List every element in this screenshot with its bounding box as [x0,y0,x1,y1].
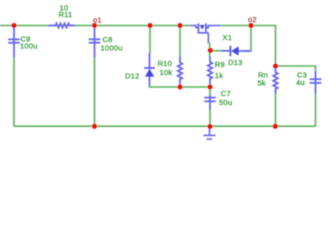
resistor R10 [178,57,183,86]
wire Rn bottom [275,94,277,127]
svg-text:1000u: 1000u [101,43,123,52]
wire D13 to o2 [250,26,252,52]
node dot R10 top [178,23,183,28]
svg-text:X1: X1 [223,33,233,42]
node dot D12 top [148,23,153,28]
svg-text:R11: R11 [59,10,73,19]
node dot C7 bottom [208,124,213,129]
wire C3 bottom [315,94,317,127]
svg-text:1k: 1k [215,71,223,80]
wire R10 bottom [179,86,181,88]
wire top rail left [0,25,49,27]
diode D12 [144,53,155,86]
node dot Rn bottom [273,124,278,129]
node dot Rn top [273,64,278,69]
node dot R9 bottom [208,85,213,90]
svg-text:o2: o2 [248,15,257,24]
node dot o2 [249,23,254,28]
wire C9 to bottom rail [13,57,15,127]
node dot R10 bottom [178,85,183,90]
wire node to C3 [276,66,316,72]
svg-text:D13: D13 [228,58,243,67]
svg-text:50u: 50u [219,98,232,107]
capacitor C8 [89,26,101,58]
diode D13 [221,46,251,56]
wire D12 bottom + mid wire [150,86,211,88]
wire top rail right [220,26,276,67]
wire R10 top lead [179,26,181,58]
svg-text:100u: 100u [20,42,38,51]
resistor R11 [49,23,76,27]
wire top rail middle [75,25,191,27]
wire R9 bottom [209,84,211,87]
svg-text:D12: D12 [125,71,140,80]
switch X1 [191,23,221,43]
wire gate to R9 node [209,43,211,57]
svg-text:5k: 5k [258,79,266,88]
wire C7 top lead [209,87,211,95]
wire C8 to bottom rail [94,57,96,127]
resistor Rn [273,66,278,94]
node dot C8 bottom [92,124,97,129]
svg-text:10k: 10k [160,68,173,77]
wire bottom rail [14,125,316,127]
svg-text:R9: R9 [215,60,225,69]
node dot C9 [12,23,17,28]
node dot o1 [92,23,97,28]
capacitor C3 [310,71,322,94]
wire node to D13 [210,50,222,52]
capacitor C9 [8,26,20,58]
svg-text:4u: 4u [296,78,305,87]
svg-text:C7: C7 [221,89,231,98]
ground below C7 node [204,127,216,139]
wire C7 bottom [209,110,211,127]
resistor R9 [208,57,213,85]
node dot gate/R9/D13 [208,48,213,53]
capacitor C7 [204,95,215,111]
wire D12 top lead [149,26,151,54]
